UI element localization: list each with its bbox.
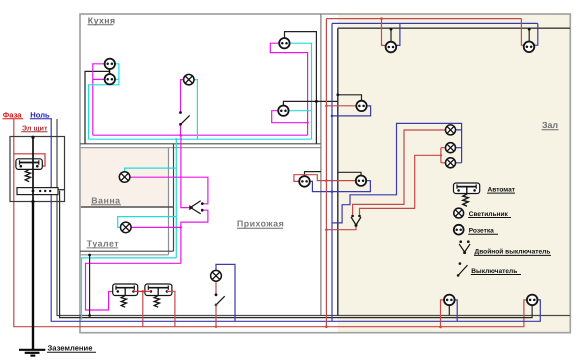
svg-text:Прихожая: Прихожая (237, 218, 284, 228)
node: red junction between breakers (142, 290, 145, 293)
svg-text:Фаза: Фаза (3, 110, 22, 119)
svg-text:Автомат: Автомат (488, 186, 516, 193)
node: blue junctions on riser (331, 115, 334, 118)
socket L2 (356, 176, 366, 186)
wall: bath/toilet divider (81, 206, 174, 208)
wall: toilet south (inner dark) (80, 250, 174, 252)
wire: socket D1 blue riser (455, 300, 458, 321)
ground conductor (thick) (32, 202, 34, 350)
ground symbol bar 1 (19, 349, 45, 351)
breaker B1: contact bar (116, 287, 134, 289)
socket KA (279, 38, 289, 48)
wire: socket KA cyan + riser to bus (290, 43, 312, 139)
breaker B1: bar ticks (116, 286, 134, 290)
switch kitchen: blade (181, 115, 190, 124)
underline Tualet (87, 247, 119, 249)
electrical panel box (10, 137, 65, 202)
wire: red out of B2 down to bus (167, 291, 175, 326)
node: red split junction (440, 154, 442, 156)
legend double switch: contact dots (459, 240, 462, 243)
wall: kitchen south (dark line) (80, 143, 321, 145)
wire: magenta phase riser to hall double switch (181, 135, 191, 207)
wire: switch lower contact magenta to toilet lamp and down (181, 210, 208, 263)
wire: magenta riser + taps to sockets K1,K2 (93, 64, 105, 135)
double switch Zal: contact dots (351, 215, 354, 218)
legend switch: blade (458, 265, 467, 275)
wire: socket KB cyan tap (289, 110, 312, 112)
wall: kitchen south (grey line) (80, 147, 321, 149)
legend socket (454, 225, 464, 235)
wire: blue taps to lamps (455, 130, 461, 163)
wire: socket KB magenta loop (272, 111, 308, 123)
legend breaker: trip spring (463, 187, 469, 206)
wire: socket KA magenta loop + long riser to bus (270, 43, 307, 135)
wire: hall socket blue + loop under Zal socket L2 (310, 181, 371, 192)
underline Nol (30, 118, 52, 120)
svg-text:Ноль: Ноль (30, 110, 50, 119)
switch kitchen: bottom contact (179, 123, 182, 126)
node: D1 red junction (439, 326, 442, 329)
wire: socket D1 black stem (448, 305, 450, 315)
breaker in panel: bar end ticks (20, 160, 39, 164)
breaker B2: terminal dots (150, 290, 153, 293)
node: black ground junction (315, 100, 318, 103)
switch kitchen: top contact (179, 111, 182, 114)
node: magenta bus junction at switch (179, 134, 181, 136)
hall double switch: contact dots (201, 202, 204, 205)
wire: socket L2 black to wall (338, 172, 361, 175)
wall: hall south / bottom dark line A (57, 119, 570, 316)
wall: bath-toilet east grey (168, 148, 170, 255)
wire: bath lamp magenta to switch upper contact (130, 177, 208, 204)
node: red tap T1 (380, 17, 383, 20)
svg-text:Зал: Зал (542, 120, 558, 130)
wire: red link B1-B2 (134, 290, 151, 292)
legend breaker: terminal dots (457, 189, 460, 192)
lamp Z3 (446, 158, 456, 168)
wire: Zal red top run (326, 18, 521, 20)
svg-text:Кухня: Кухня (88, 15, 116, 25)
wire: red below switch to bottom bus (215, 306, 217, 327)
underline Kuhnya (88, 24, 114, 26)
room fill: Vanna (pink) (81, 148, 169, 207)
socket T1 (386, 42, 397, 53)
wire: socket KA black loop to ground junction (285, 32, 317, 144)
node: black riser bottom (88, 314, 91, 317)
svg-text:Двойной выключатель: Двойной выключатель (475, 249, 551, 256)
node: red junction bottom bus (215, 326, 217, 328)
breaker B2: bar ticks (148, 286, 168, 290)
wire: Zal blue top run (332, 22, 538, 24)
wire: switch output A red to lamp Z1 (353, 130, 446, 215)
socket D1 (444, 295, 455, 306)
node: magenta tap on kitchen bus (180, 134, 182, 136)
socket K2 (105, 74, 115, 84)
svg-text:Эл щит: Эл щит (22, 123, 48, 132)
underline Prihozhaya (237, 227, 283, 229)
legend breaker: contact bar (457, 186, 476, 188)
legend switch: top dot (459, 262, 462, 265)
bus bar in panel (17, 188, 58, 195)
wire: neutral blue riser + bottom run + up to socket D2 (51, 119, 540, 322)
svg-text:Ванна: Ванна (91, 195, 120, 205)
wall: toilet south (outer grey) (80, 254, 169, 256)
wire: kitchen cyan bus (89, 138, 312, 140)
breaker in panel: trip spring (25, 169, 30, 181)
svg-text:Туалет: Туалет (87, 239, 119, 249)
bus bar dots (32, 190, 35, 193)
wire: blue lamp loop (Z1-Z3 right side, back to riser) (332, 123, 462, 222)
wire: socket L1 black to wall (338, 95, 362, 101)
underline Vyklyuchatel (471, 274, 521, 276)
wire: magenta bottom run + loop to breaker B1 (86, 263, 181, 310)
wire: socket L1 blue loop to riser (332, 106, 371, 116)
legend breaker: body (454, 183, 480, 194)
wire: socket T2 red (521, 19, 523, 46)
wire: cyan riser along hall wall (175, 139, 177, 258)
svg-text:Выключатель: Выключатель (471, 268, 517, 275)
underline El schit (21, 131, 47, 133)
wire: black riser bottom room (89, 255, 91, 316)
wire: toilet lamp magenta (131, 226, 181, 228)
wire: phase red riser + bottom run + up to socket D2 (14, 119, 527, 327)
wire: bus bar stub to panel edge (58, 189, 65, 191)
wire: red split to lamp Z2 and Z3 (441, 148, 446, 163)
socket T2 (524, 42, 535, 53)
switch hall: top contact (215, 293, 218, 296)
wire: socket T2 blue (534, 23, 538, 45)
wire: Zal red riser (left bundle) (325, 19, 327, 327)
socket KB (278, 106, 288, 116)
svg-text:Розетка: Розетка (469, 228, 494, 235)
wire: hall socket black to wall (305, 172, 321, 177)
node: magenta junction at riser (180, 226, 182, 228)
node: cyan tap on kitchen bus (175, 138, 177, 140)
wire: red branch inside panel to breaker (14, 154, 45, 166)
wire: kitchen magenta bus (93, 134, 308, 136)
lamp toilet (121, 222, 132, 233)
underline Rozetka (468, 233, 498, 235)
double switch Zal: vertex dot (355, 224, 358, 227)
lamp hall (211, 270, 222, 281)
double switch Zal: blades (351, 217, 361, 225)
lamp Z1 (446, 125, 456, 135)
room fill: Zal (beige) (338, 14, 570, 332)
node: panel top junction (31, 136, 34, 139)
wire: socket KB black to Zal wall (283, 101, 337, 105)
socket K1 (105, 59, 115, 69)
wall: bath-toilet east dark (173, 144, 175, 251)
breaker B1: body (113, 284, 138, 296)
node: black riser top (88, 254, 91, 257)
node: black tap T1 (390, 28, 393, 31)
wire: main black line through panel (32, 137, 34, 202)
wire: hall socket red loop over + run to Zal socket L2 (294, 175, 356, 182)
legend double switch: vertex dot (463, 251, 466, 254)
wire: socket T1 black stem (390, 28, 392, 42)
socket D2 (527, 295, 538, 306)
wall: kitchen/hallway right (vertical grey) (320, 14, 322, 316)
wire: bath lamp cyan (125, 168, 177, 171)
underline Dvoinoy (474, 254, 551, 256)
wire: red drop to bottom bus (142, 291, 144, 326)
breaker in panel: contact bar (20, 162, 39, 164)
svg-text:Светильник: Светильник (469, 211, 509, 218)
socket H1 (299, 176, 310, 187)
node: magenta junction (306, 122, 308, 124)
switch hall: blade (216, 296, 225, 305)
wire: switch output B red to lamps Z2,Z3 (360, 155, 441, 215)
lamp Z2 (446, 143, 456, 153)
breaker B2: body (145, 284, 172, 296)
node: panel bottom junction (31, 200, 34, 203)
node: red junctions on riser (325, 105, 328, 108)
switch hall: bottom contact (215, 304, 218, 307)
breaker B1: terminal dots (117, 290, 120, 293)
wire: cyan bottom run to left wall riser (82, 258, 177, 320)
wall: Zal top (338, 27, 570, 29)
wire: cyan sockets K1,K2 loop + riser to bus (89, 64, 119, 139)
breaker B2: trip spring (154, 289, 159, 308)
wire: ground riser to left sockets (joins south dark line) (85, 71, 110, 143)
underline Vanna (91, 204, 121, 206)
wire: socket D1 red riser (441, 300, 445, 327)
legend double switch: blades (459, 244, 470, 252)
wire: hall lamp red drop to switch (215, 281, 217, 294)
legend lamp (454, 208, 464, 218)
hall double switch: vertex (189, 205, 193, 210)
floor plan outer border (80, 14, 570, 333)
breaker B1: trip spring (121, 289, 126, 308)
node: black tap T2 (528, 28, 531, 31)
hall double switch: blades (191, 201, 200, 214)
breaker in panel: terminal dots (20, 165, 23, 168)
wire: hall lamp blue loop to bottom bus (216, 264, 235, 321)
ground symbol bar 3 (30, 355, 35, 357)
svg-text:Заземление: Заземление (48, 343, 93, 352)
underline Avtomat (487, 192, 515, 194)
legend breaker: bar ticks (457, 184, 476, 188)
breaker in panel: rounded body (16, 159, 42, 170)
legend switch: bottom dot (457, 274, 460, 277)
underline Faza (3, 118, 24, 120)
wire: socket T1 blue (396, 23, 400, 45)
breaker B2: contact bar (148, 287, 168, 289)
underline Zazemlenie (47, 351, 96, 353)
wire: Zal blue riser (left bundle) (331, 23, 333, 321)
wire: ground black B riser + bottom run + socket D2 stem (60, 191, 532, 318)
wire: magenta lamp drop to switch (181, 80, 184, 112)
ground symbol bar 2 (25, 352, 40, 354)
wire: socket T1 red (382, 19, 386, 46)
wire: socket L1 red feed (326, 105, 356, 107)
wall: Zal left (337, 28, 339, 315)
underline Svetilnik (468, 217, 511, 219)
lamp bath (119, 172, 130, 183)
wire: magenta below switch to bus (180, 126, 182, 136)
node: black junction on Zal wall (336, 93, 339, 96)
wire: red feed to double switch (326, 227, 356, 230)
wire: black link between socket K1/K2 (109, 69, 111, 75)
socket L1 (356, 101, 366, 111)
wire: toilet lamp cyan (118, 217, 177, 228)
underline Zal (542, 129, 559, 131)
wire: cyan from lamp to bus (194, 80, 197, 140)
wire: socket T2 black stem (528, 28, 530, 41)
lamp kitchen (184, 74, 194, 84)
